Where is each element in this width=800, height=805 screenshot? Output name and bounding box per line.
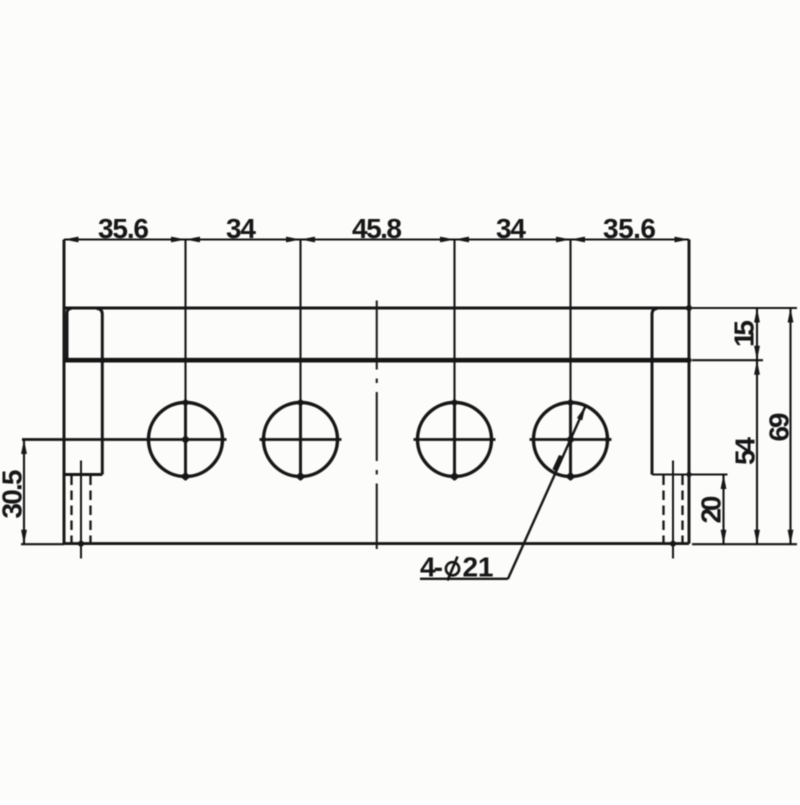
right notch vertical with rounded corner bbox=[652, 309, 658, 475]
dimension line 34 (right) bbox=[455, 238, 571, 240]
left hidden hole centreline bbox=[80, 461, 82, 559]
hole 3 vertical centreline (in-circle, heavier) bbox=[453, 401, 456, 480]
right hidden hole centreline bbox=[672, 461, 674, 559]
extension line bold step right bbox=[692, 359, 763, 361]
dot plate top right corner bbox=[686, 305, 692, 311]
dot right hidden hole centreline at bottom edge bbox=[670, 541, 676, 547]
svg-text:45.8: 45.8 bbox=[352, 213, 402, 244]
dimension line 35.6 (left) bbox=[64, 238, 186, 240]
20 dimension line bbox=[722, 475, 724, 545]
hole 3 horizontal centreline bbox=[414, 438, 496, 441]
top edge of plate bbox=[64, 307, 689, 310]
dimension line 35.6 (right) bbox=[571, 238, 690, 240]
dot hole1 bottom bbox=[182, 473, 189, 480]
left hidden hole dashed line a bbox=[70, 476, 72, 544]
hole 4 horizontal centreline bbox=[530, 438, 612, 441]
hole 2 horizontal centreline bbox=[260, 438, 342, 441]
left notch step line bbox=[64, 473, 102, 476]
svg-text:35.6: 35.6 bbox=[98, 213, 149, 244]
label diameter symbol bbox=[446, 562, 459, 575]
bottom edge of plate bbox=[64, 542, 689, 545]
dot right notch at bold line bbox=[650, 358, 655, 363]
dot hole2 bottom bbox=[297, 473, 304, 480]
dot hole1 centre bbox=[182, 436, 189, 443]
left edge of plate (with extension up to dim line) bbox=[63, 240, 66, 544]
right hidden hole dashed line b bbox=[681, 476, 683, 544]
hole 1 vertical centreline (in-circle, heavier) bbox=[184, 401, 187, 480]
svg-text:34: 34 bbox=[496, 213, 526, 244]
dot hole4 top bbox=[568, 400, 574, 406]
hole 2 circle bbox=[264, 403, 338, 477]
leader shelf / underline bbox=[420, 578, 508, 580]
dot hole2 left bbox=[261, 437, 266, 442]
dot left hidden hole centreline at bottom edge bbox=[78, 541, 84, 547]
69 dimension line bbox=[789, 308, 791, 544]
leader junction blob on circle edge bbox=[553, 455, 564, 472]
dimension line 45.8 bbox=[301, 238, 455, 240]
extension line 20 step right bbox=[652, 473, 728, 475]
30.5 dimension line bbox=[23, 440, 25, 545]
extension line / hole 2 centreline vertical bbox=[299, 240, 301, 481]
dot hole1 top bbox=[183, 400, 189, 406]
leader slant line with arrow to hole 4 bbox=[508, 406, 586, 579]
dot hole3 bottom bbox=[451, 473, 458, 480]
hole 1 circle bbox=[149, 403, 223, 477]
right hidden hole dashed line a bbox=[662, 476, 664, 544]
right edge of plate (with extension up to dim line) bbox=[688, 240, 691, 544]
hole 1 horizontal centreline + 30.5 extension line bbox=[22, 438, 227, 441]
svg-text:21: 21 bbox=[463, 552, 494, 583]
54 dimension line bbox=[756, 360, 758, 544]
svg-text:54: 54 bbox=[730, 437, 761, 465]
dot bold line right edge bbox=[686, 358, 691, 363]
hole 3 circle bbox=[418, 403, 492, 477]
dot hole2 top bbox=[298, 400, 304, 406]
extension line / hole 4 centreline vertical bbox=[569, 240, 571, 481]
svg-text:20: 20 bbox=[696, 496, 727, 524]
extension line / hole 3 centreline vertical bbox=[453, 240, 455, 481]
dot hole4 bottom bbox=[567, 473, 574, 480]
dot right notch step corner bbox=[686, 472, 691, 477]
15 dimension line bbox=[756, 308, 758, 360]
extension line top edge right bbox=[692, 307, 797, 309]
svg-text:15: 15 bbox=[729, 320, 760, 347]
hole 2 vertical centreline (in-circle, heavier) bbox=[299, 401, 302, 480]
left hidden hole dashed line b bbox=[89, 476, 91, 544]
dot hole4 centre bbox=[567, 436, 574, 443]
svg-text:30.5: 30.5 bbox=[0, 470, 28, 519]
left notch vertical with rounded corner bbox=[97, 309, 103, 475]
hole 4 circle bbox=[534, 403, 608, 477]
svg-text:4-: 4- bbox=[420, 552, 443, 583]
bottom extension line (right) bbox=[692, 543, 797, 545]
dimension line 34 (left) bbox=[186, 238, 301, 240]
dot hole4 right bbox=[605, 437, 610, 442]
dot left notch at bold line bbox=[100, 358, 105, 363]
dot hole3 top bbox=[452, 400, 458, 406]
svg-text:34: 34 bbox=[226, 213, 256, 244]
hole 4 vertical centreline (in-circle, heavier) bbox=[569, 401, 572, 480]
svg-text:35.6: 35.6 bbox=[603, 213, 656, 244]
left inner fillet edge of raised band bbox=[67, 309, 72, 359]
bold step edge line (15 line) bbox=[64, 358, 689, 363]
extension line / hole 1 centreline vertical bbox=[184, 240, 186, 481]
svg-text:69: 69 bbox=[764, 413, 795, 442]
bottom extension line (left) bbox=[21, 543, 64, 545]
